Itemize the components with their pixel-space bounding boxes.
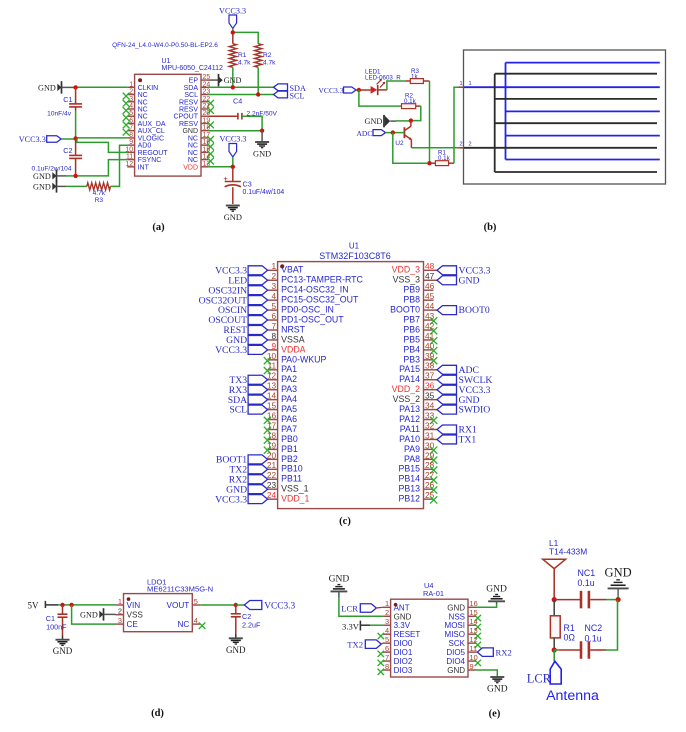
antenna L1 labels <box>549 538 587 557</box>
U1(c) pin 42 (PB6) <box>403 321 437 335</box>
net flag TX2 (e) <box>347 639 382 649</box>
node junction pin13/C3 <box>231 165 235 169</box>
svg-text:PB1: PB1 <box>281 444 298 454</box>
wire R2(b) down to collector node <box>411 106 421 121</box>
svg-text:GND: GND <box>224 76 242 85</box>
antenna L1 symbol <box>543 559 566 599</box>
svg-text:PB9: PB9 <box>403 285 420 295</box>
svg-text:REGOUT: REGOUT <box>138 150 169 157</box>
resistor R1 0.1k (b) <box>430 149 455 165</box>
node junction R2/SCL <box>256 92 260 96</box>
svg-text:NC: NC <box>188 135 198 142</box>
net flag SDA <box>274 84 306 93</box>
svg-text:NC: NC <box>188 143 198 150</box>
wire VCC3.3 to VLOGIC pin8 <box>76 137 128 139</box>
svg-text:NSS: NSS <box>449 612 465 621</box>
svg-text:37: 37 <box>425 371 435 381</box>
svg-text:4: 4 <box>194 616 198 625</box>
svg-text:PA7: PA7 <box>281 424 297 434</box>
U1(c) pin 2 (PC13-TAMPER-RTC) <box>228 271 363 286</box>
svg-text:(c): (c) <box>339 516 351 527</box>
U1(c) pin 41 (PB5) <box>403 331 437 345</box>
U4 pin 13 (MISO) <box>445 626 481 639</box>
svg-text:GND: GND <box>226 645 246 655</box>
svg-text:GND: GND <box>447 666 465 675</box>
U1 pin 5 (NC) <box>123 110 148 121</box>
svg-text:PD0-OSC_IN: PD0-OSC_IN <box>281 305 334 315</box>
svg-text:14: 14 <box>470 617 478 626</box>
svg-text:AUX_CL: AUX_CL <box>138 128 165 135</box>
svg-text:NC: NC <box>138 106 148 113</box>
svg-text:7: 7 <box>271 321 276 331</box>
svg-text:GND: GND <box>80 611 98 620</box>
svg-text:100nF: 100nF <box>46 623 67 632</box>
wire GND to U4 pin2 <box>339 591 383 616</box>
U1(c) pin 1 (VBAT) <box>215 261 304 276</box>
U1(c) pin 6 (PD1-OSC_OUT) <box>208 311 344 326</box>
label (b) <box>484 222 497 233</box>
svg-text:RESET: RESET <box>394 630 421 639</box>
power port 3.3V (e) <box>342 621 383 632</box>
svg-text:5: 5 <box>271 301 276 311</box>
wire U4 pin9 to GND <box>476 670 497 677</box>
svg-text:47: 47 <box>425 271 435 281</box>
svg-text:Antenna: Antenna <box>546 688 599 704</box>
svg-text:GND: GND <box>38 84 56 93</box>
svg-text:EP: EP <box>189 78 199 85</box>
ground symbol (U4 pin2 GND) <box>329 574 350 591</box>
capacitor C2 <box>32 139 83 176</box>
ground symbol (C2 d) <box>226 638 246 655</box>
svg-text:VCC3.3: VCC3.3 <box>219 134 246 143</box>
svg-text:PC13-TAMPER-RTC: PC13-TAMPER-RTC <box>281 275 363 285</box>
svg-text:1: 1 <box>469 81 472 87</box>
svg-text:3.3V: 3.3V <box>342 621 360 631</box>
svg-text:GND: GND <box>253 150 271 159</box>
svg-text:4.7k: 4.7k <box>238 60 251 67</box>
svg-text:PB7: PB7 <box>403 314 420 324</box>
resistor R1 0 ohm (e) <box>550 600 575 650</box>
resistor R2 4.7k <box>255 44 277 68</box>
svg-text:R1: R1 <box>238 52 247 59</box>
U1(c) pin 47 (VSS_3) <box>393 271 480 286</box>
LDO1 pin 1 (VIN) <box>116 597 141 610</box>
svg-text:DIO0: DIO0 <box>394 639 413 648</box>
wire VCC3.3 down to R1/R2 split <box>233 29 258 44</box>
svg-text:32: 32 <box>425 420 435 430</box>
svg-text:SDA: SDA <box>184 85 199 92</box>
wire emitter to sensor pin 2 <box>411 142 471 148</box>
svg-text:6: 6 <box>129 117 133 124</box>
svg-text:4.7k: 4.7k <box>263 60 276 67</box>
svg-text:AD0: AD0 <box>138 143 152 150</box>
svg-text:VCC3.3: VCC3.3 <box>318 86 343 95</box>
svg-text:21: 21 <box>267 460 277 470</box>
svg-text:4: 4 <box>129 103 133 110</box>
U1 pin 24 (SDA) <box>184 81 211 92</box>
svg-text:(b): (b) <box>484 222 497 233</box>
svg-text:NC: NC <box>138 99 148 106</box>
svg-text:5V: 5V <box>28 601 40 611</box>
svg-text:PA14: PA14 <box>399 374 420 384</box>
U1(c) pin 31 (PA10) <box>399 430 476 445</box>
svg-text:GND: GND <box>394 612 412 621</box>
U1 pin 7 (AUX_CL) <box>123 125 165 136</box>
svg-text:BOOT0: BOOT0 <box>459 305 490 316</box>
U1 pin 23 (SCL) <box>184 89 210 100</box>
U1(c) pin 17 (PA7) <box>264 420 297 434</box>
svg-text:PB0: PB0 <box>281 434 298 444</box>
wire GND to C2/FSYNC <box>57 160 128 176</box>
U1(c) pin 33 (PA12) <box>399 410 437 424</box>
ground symbol (EP pin 25) <box>208 74 241 86</box>
svg-text:4: 4 <box>271 291 276 301</box>
U1(c) pin 37 (PA14) <box>399 371 492 386</box>
LED1 LED-0603_R <box>365 69 401 96</box>
U1(c) pin 26 (PB13) <box>398 480 437 494</box>
U1 pin 25 (EP) <box>189 74 211 85</box>
svg-text:INT: INT <box>138 164 150 171</box>
U1(c) pin 10 (PA0-WKUP) <box>264 351 327 365</box>
U4 pin 5 (DIO0) <box>383 635 413 648</box>
net flag SCL <box>274 91 305 100</box>
chip U4 title <box>423 581 444 598</box>
capacitor NC1 0.1u <box>554 568 618 608</box>
svg-text:U1: U1 <box>162 58 171 65</box>
U1 pin 4 (NC) <box>123 103 148 114</box>
U1(c) pin 46 (PB9) <box>403 281 434 295</box>
svg-text:3: 3 <box>129 96 133 103</box>
wire GND to collector node <box>390 120 411 122</box>
sensor black electrode comb <box>464 74 657 172</box>
wire 5V to VIN <box>58 604 116 606</box>
svg-text:PA11: PA11 <box>400 424 420 434</box>
svg-text:RA-01: RA-01 <box>423 589 444 598</box>
svg-text:VDD_3: VDD_3 <box>392 265 420 275</box>
svg-text:RESV: RESV <box>179 121 198 128</box>
U1 pin 1 (CLKIN) <box>127 81 158 92</box>
node junction at C1 top <box>73 85 77 89</box>
svg-text:(d): (d) <box>151 708 164 719</box>
node junction R1/NC2/LCR <box>552 647 557 652</box>
svg-text:2.2uF: 2.2uF <box>242 621 261 630</box>
U1(c) pin 43 (PB7) <box>403 311 437 325</box>
IMU circuit (a) title text <box>112 42 223 72</box>
svg-text:C1: C1 <box>63 95 72 104</box>
svg-text:MPU-6050_C24112: MPU-6050_C24112 <box>162 65 223 72</box>
U1(c) pin 45 (PB8) <box>403 291 434 305</box>
ground symbol (VSS d) <box>80 608 103 620</box>
svg-text:TX1: TX1 <box>459 435 477 446</box>
svg-text:8: 8 <box>271 331 276 341</box>
svg-text:45: 45 <box>425 291 435 301</box>
node junction NC1/NC2 right <box>616 597 621 602</box>
svg-text:GND: GND <box>33 183 51 192</box>
svg-text:2: 2 <box>271 271 276 281</box>
U1(c) pin 38 (PA15) <box>399 361 479 376</box>
svg-text:35: 35 <box>425 391 435 401</box>
ground symbol (U4 pin9) <box>487 677 508 695</box>
svg-text:R3: R3 <box>95 197 104 204</box>
svg-text:SCL: SCL <box>184 92 198 99</box>
U1 pin 19 (RESV) <box>179 117 214 128</box>
svg-text:PA8: PA8 <box>404 454 420 464</box>
U1 pin 11 (FSYNC) <box>126 154 161 165</box>
svg-text:VOUT: VOUT <box>167 601 190 610</box>
svg-text:PB8: PB8 <box>403 295 420 305</box>
svg-text:TX2: TX2 <box>347 639 363 649</box>
power flag VCC3.3 (d) <box>236 601 296 612</box>
svg-text:T14-433M: T14-433M <box>549 547 587 557</box>
svg-text:9: 9 <box>129 139 133 146</box>
svg-text:MOSI: MOSI <box>445 621 465 630</box>
resistor R2 0.1k (b) <box>400 93 420 109</box>
resistor R3 1k (b) <box>406 68 430 84</box>
svg-text:2: 2 <box>129 89 133 96</box>
U1(c) pin 39 (PB3) <box>403 351 437 365</box>
power flag VCC3.3 (b) <box>318 86 370 95</box>
U1(c) pin 35 (VSS_2) <box>393 391 480 406</box>
wire GND to NC1 <box>617 588 619 599</box>
resistor R1 4.7k <box>229 44 251 68</box>
net flag RX2 (e) <box>476 648 512 658</box>
svg-text:10nF/4v: 10nF/4v <box>47 111 72 118</box>
svg-text:12: 12 <box>470 635 478 644</box>
svg-text:22: 22 <box>267 470 277 480</box>
svg-text:PB4: PB4 <box>403 344 420 354</box>
svg-text:CE: CE <box>127 620 139 629</box>
node junction collector <box>409 118 413 122</box>
transistor U2 (NPN) <box>395 121 412 148</box>
U4 pin 2 (GND) <box>383 608 412 621</box>
capacitor C1 100nF (d) <box>46 605 68 640</box>
svg-text:6: 6 <box>385 644 389 653</box>
U1(c) pin 24 (VDD_1) <box>215 490 309 505</box>
net flag ADC (b) <box>356 129 404 138</box>
svg-text:PC14-OSC32_IN: PC14-OSC32_IN <box>281 285 348 295</box>
U4 pin 14 (MOSI) <box>445 617 481 630</box>
svg-text:GND: GND <box>182 128 198 135</box>
svg-text:NRST: NRST <box>281 324 306 334</box>
capacitor C4 2.2nF/50V <box>208 96 277 130</box>
svg-text:4: 4 <box>385 626 389 635</box>
ground symbol (antenna) <box>605 566 632 589</box>
svg-text:GND: GND <box>605 566 632 580</box>
svg-text:NC: NC <box>177 620 189 629</box>
svg-text:PB10: PB10 <box>281 464 303 474</box>
svg-text:PA10: PA10 <box>399 434 420 444</box>
svg-text:NC: NC <box>138 114 148 121</box>
wire VCC to R2(b) <box>359 90 401 106</box>
svg-text:PB15: PB15 <box>398 464 420 474</box>
svg-text:23: 23 <box>267 480 277 490</box>
svg-text:CLKIN: CLKIN <box>138 85 159 92</box>
power flag VCC3.3 (left) <box>19 135 76 144</box>
wire LED cathode to R3(b) <box>378 81 406 90</box>
wire R3(b) down to R1(b) <box>429 81 431 163</box>
svg-text:(a): (a) <box>152 222 165 233</box>
wire VOUT to VCC3.3 <box>200 604 236 606</box>
U1 pin 6 (AUX_DA) <box>123 117 166 128</box>
U4 pin 10 (DIO4) <box>446 653 481 666</box>
svg-text:PB2: PB2 <box>281 454 298 464</box>
svg-text:DIO3: DIO3 <box>394 666 413 675</box>
svg-text:1: 1 <box>460 81 463 87</box>
wire CE net <box>72 605 116 624</box>
svg-text:PB14: PB14 <box>398 474 420 484</box>
svg-text:6: 6 <box>271 311 276 321</box>
U1(c) pin 18 (PB0) <box>264 430 298 444</box>
LDO1 pin 3 (CE) <box>116 616 139 629</box>
svg-text:VLOGIC: VLOGIC <box>138 135 164 142</box>
svg-text:GND: GND <box>459 275 480 286</box>
chip LDO1 ME6211C33M5G-N body <box>124 594 193 632</box>
U1 pin 8 (VLOGIC) <box>127 132 164 143</box>
U1 pin 3 (NC) <box>123 96 148 107</box>
wire VCC net to REGOUT pin10 <box>77 139 127 153</box>
svg-text:14: 14 <box>267 391 277 401</box>
svg-text:GND: GND <box>447 603 465 612</box>
resistor R3 4.7k <box>87 183 111 204</box>
U1(c) pin 9 (VDDA) <box>215 341 306 356</box>
label (e) <box>489 709 501 720</box>
wire R1 to SDA line <box>232 67 234 87</box>
svg-text:VSS_3: VSS_3 <box>393 275 420 285</box>
U4 pin 3 (3.3V) <box>383 617 411 630</box>
LDO1 pin 5 (VOUT) <box>167 597 201 610</box>
chip U1 STM32 title <box>319 242 391 261</box>
U1(c) pin 36 (VDD_2) <box>392 381 491 396</box>
svg-text:GND: GND <box>486 584 507 594</box>
svg-text:SCK: SCK <box>449 639 466 648</box>
node junction base/ADC <box>391 130 395 134</box>
wire R1(b) to sensor pin 1 <box>454 81 472 163</box>
sensor probe outline (b) <box>464 50 666 184</box>
IC U1 MPU-6050_C24112 chip body <box>135 74 201 176</box>
node junction antenna/R1/NC1 <box>552 597 557 602</box>
svg-text:VSS: VSS <box>127 611 144 620</box>
chip U4 RA-01 body <box>391 599 468 677</box>
svg-text:PA13: PA13 <box>399 404 420 414</box>
node junction pin18/C4 <box>260 129 264 133</box>
U1(c) pin 3 (PC14-OSC32_IN) <box>208 281 348 296</box>
wire GND pin18 <box>208 130 262 132</box>
svg-text:RESV: RESV <box>179 106 198 113</box>
svg-text:PB5: PB5 <box>403 334 420 344</box>
ground symbol (b) <box>365 115 391 127</box>
wire VCC3.3 to pin13 <box>208 157 232 167</box>
node junction VCC3.3 (b) <box>357 88 361 92</box>
capacitor NC2 0.1u <box>554 600 617 659</box>
wire GND to VSS pin <box>104 613 116 615</box>
wire GND to U4 pin16 <box>476 601 497 607</box>
U1(c) pin 23 (VSS_1) <box>226 480 308 495</box>
svg-text:46: 46 <box>425 281 435 291</box>
svg-text:NC2: NC2 <box>585 623 603 633</box>
U1(c) pin 12 (PA2) <box>229 371 297 386</box>
svg-text:DIO2: DIO2 <box>394 657 413 666</box>
U1(c) pin 13 (PA3) <box>229 381 297 396</box>
power port 5V <box>28 601 59 611</box>
svg-text:8: 8 <box>129 132 133 139</box>
svg-text:PA0-WKUP: PA0-WKUP <box>281 354 326 364</box>
U1 pin 22 (RESV) <box>179 96 214 107</box>
svg-text:C3: C3 <box>243 180 252 189</box>
svg-text:PB3: PB3 <box>403 354 420 364</box>
wire base node down to R1(b) <box>393 133 430 164</box>
svg-text:PA4: PA4 <box>281 394 297 404</box>
U4 pin 15 (NSS) <box>449 608 481 621</box>
svg-text:R1: R1 <box>564 623 575 633</box>
text Antenna <box>546 688 599 704</box>
svg-text:3.3V: 3.3V <box>394 621 411 630</box>
svg-text:0.1u: 0.1u <box>585 634 602 644</box>
node junction C2/GND <box>73 174 77 178</box>
U1(c) pin 48 (VDD_3) <box>392 261 491 276</box>
U4 pin 8 (DIO3) <box>378 662 413 675</box>
svg-text:LCR: LCR <box>527 672 552 686</box>
U4 pin 12 (SCK) <box>449 635 481 648</box>
svg-text:2: 2 <box>385 608 389 617</box>
svg-text:1: 1 <box>271 261 276 271</box>
svg-text:C4: C4 <box>233 96 242 105</box>
svg-text:VDDA: VDDA <box>281 344 306 354</box>
U4 pin 16 (GND) <box>447 599 478 612</box>
capacitor C1 <box>47 87 82 138</box>
U1(c) pin 14 (PA4) <box>228 391 297 406</box>
U1(c) pin 25 (PB12) <box>398 490 437 504</box>
U1 pin 12 (INT) <box>125 161 149 172</box>
svg-text:BOOT0: BOOT0 <box>390 305 420 315</box>
svg-text:2: 2 <box>469 142 472 148</box>
ground symbol (pin18 net) <box>253 131 271 159</box>
svg-text:1: 1 <box>129 81 133 88</box>
U1 pin 20 (CPOUT) <box>174 110 211 121</box>
U1 pin 2 (NC) <box>123 89 148 100</box>
U1(c) pin 16 (PA6) <box>264 410 297 424</box>
svg-text:VDD_2: VDD_2 <box>392 384 420 394</box>
capacitor C3 (polarized) <box>223 167 284 204</box>
svg-text:7: 7 <box>129 125 133 132</box>
U1 pin 14 (NC) <box>188 154 214 165</box>
svg-text:(e): (e) <box>489 709 501 720</box>
svg-text:PD1-OSC_OUT: PD1-OSC_OUT <box>281 314 344 324</box>
U1(c) pin 5 (PD0-OSC_IN) <box>218 301 334 316</box>
svg-text:7: 7 <box>385 653 389 662</box>
label (d) <box>151 708 164 719</box>
U1(c) pin 19 (PB1) <box>264 440 298 454</box>
svg-text:2: 2 <box>460 142 463 148</box>
svg-text:VCC3.3: VCC3.3 <box>215 345 247 356</box>
svg-text:R2: R2 <box>263 52 272 59</box>
svg-text:1: 1 <box>385 599 389 608</box>
svg-text:DIO5: DIO5 <box>446 648 465 657</box>
U1 pin 9 (AD0) <box>127 139 151 150</box>
svg-text:PA6: PA6 <box>281 414 297 424</box>
svg-text:PC15-OSC32_OUT: PC15-OSC32_OUT <box>281 295 359 305</box>
U1(c) pin 4 (PC15-OSC32_OUT) <box>199 291 359 306</box>
svg-text:GND: GND <box>329 574 350 584</box>
U1(c) pin 21 (PB10) <box>229 460 302 475</box>
wire GND to CLKIN pin1 <box>62 86 128 88</box>
svg-text:PA5: PA5 <box>281 404 297 414</box>
U1(c) pin 8 (VSSA) <box>226 331 305 346</box>
svg-text:DIO1: DIO1 <box>394 648 413 657</box>
U4 pin 11 (DIO5) <box>446 644 477 657</box>
svg-text:VIN: VIN <box>127 601 141 610</box>
svg-text:9: 9 <box>470 662 474 671</box>
svg-text:3: 3 <box>118 616 122 625</box>
